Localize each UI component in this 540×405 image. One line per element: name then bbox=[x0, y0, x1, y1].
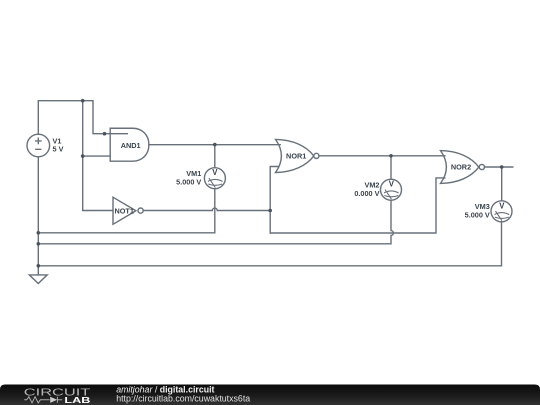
svg-text:AND1: AND1 bbox=[121, 141, 141, 150]
svg-text:http://circuitlab.com/cuwaktut: http://circuitlab.com/cuwaktutxs6ta bbox=[116, 394, 250, 404]
svg-text:5 V: 5 V bbox=[53, 145, 64, 154]
svg-text:LAB: LAB bbox=[64, 395, 90, 405]
svg-text:5.000 V: 5.000 V bbox=[465, 211, 490, 220]
svg-text:NOR1: NOR1 bbox=[286, 152, 306, 161]
svg-text:V: V bbox=[389, 180, 395, 189]
svg-text:0.000 V: 0.000 V bbox=[354, 189, 379, 198]
svg-text:5.000 V: 5.000 V bbox=[176, 177, 201, 186]
svg-text:NOR2: NOR2 bbox=[451, 163, 471, 172]
svg-text:V: V bbox=[212, 168, 218, 177]
svg-text:V: V bbox=[499, 201, 505, 210]
svg-text:NOT1: NOT1 bbox=[114, 207, 133, 216]
